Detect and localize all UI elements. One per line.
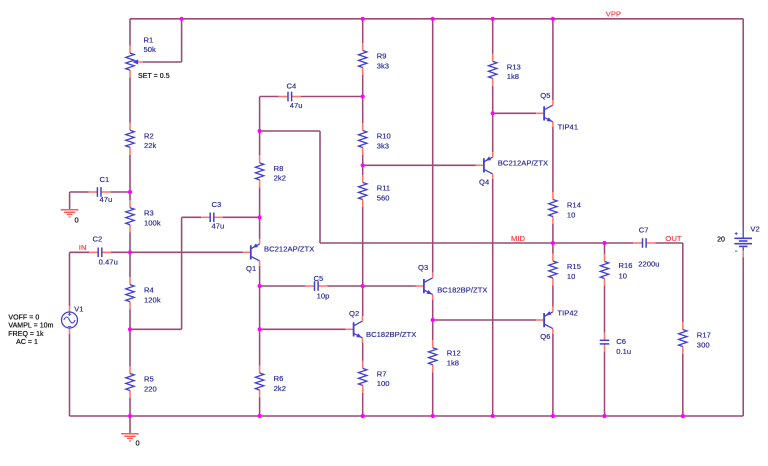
resistor R10 bbox=[359, 123, 391, 155]
svg-text:R9: R9 bbox=[377, 52, 387, 61]
svg-text:V2: V2 bbox=[750, 224, 759, 233]
wire left column seg1 bbox=[129, 19, 131, 46]
resistor R8 bbox=[255, 155, 286, 187]
svg-text:C5: C5 bbox=[314, 274, 324, 283]
wire V1 bottom bbox=[69, 334, 71, 416]
svg-text:IN: IN bbox=[79, 243, 87, 252]
V1 parameters text bbox=[8, 315, 53, 347]
capacitor C3 bbox=[201, 200, 224, 231]
svg-text:560: 560 bbox=[377, 193, 390, 202]
wire C3 row left bbox=[182, 216, 201, 218]
pot R1 SET label bbox=[138, 73, 170, 80]
wire R16 to C6 bbox=[604, 286, 606, 333]
resistor R7 bbox=[359, 361, 390, 393]
wire left column seg6 bbox=[129, 398, 131, 416]
resistor R12 bbox=[429, 340, 461, 372]
svg-text:22k: 22k bbox=[144, 141, 157, 150]
resistor R4 bbox=[126, 277, 161, 309]
wire VPP top rail bbox=[130, 18, 743, 20]
wire R12 top bbox=[432, 320, 434, 340]
wire Q4 emitter up bbox=[492, 113, 494, 152]
svg-text:Q1: Q1 bbox=[246, 264, 256, 273]
wire Q2 base row bbox=[260, 328, 346, 330]
svg-text:120k: 120k bbox=[144, 295, 161, 304]
wire C1 row left bbox=[70, 191, 89, 193]
transistor Q6 (TIP42) bbox=[536, 307, 578, 341]
resistor R11 bbox=[359, 175, 391, 207]
svg-text:R4: R4 bbox=[144, 286, 154, 295]
svg-text:BC182BP/ZTX: BC182BP/ZTX bbox=[437, 286, 487, 295]
wire branch riser to MID bbox=[319, 131, 321, 243]
wire R6 bottom bbox=[259, 398, 261, 417]
svg-text:R7: R7 bbox=[377, 369, 387, 378]
resistor R17 bbox=[679, 322, 711, 354]
svg-text:Q5: Q5 bbox=[540, 91, 550, 100]
svg-text:C6: C6 bbox=[616, 337, 626, 346]
svg-text:2k2: 2k2 bbox=[274, 384, 286, 393]
svg-text:50k: 50k bbox=[144, 45, 157, 54]
wire V2 bottom bbox=[742, 258, 744, 417]
wire Q1 col to Q2 base node bbox=[259, 286, 261, 329]
resistor R13 bbox=[489, 54, 521, 86]
svg-text:V1: V1 bbox=[74, 304, 83, 313]
svg-text:Q3: Q3 bbox=[418, 263, 428, 272]
wire Q1 collector to C5 bbox=[259, 266, 261, 286]
wire R17 bottom bbox=[682, 354, 684, 416]
svg-text:C2: C2 bbox=[93, 235, 103, 244]
resistor R14 bbox=[549, 192, 581, 224]
svg-text:R11: R11 bbox=[377, 184, 391, 193]
wire C1 ground drop bbox=[69, 191, 71, 193]
wire V1 top bbox=[69, 252, 71, 306]
wire Q3 emitter to node bbox=[432, 300, 434, 320]
wire Q4 collector down bbox=[492, 179, 494, 416]
wire IN row mid bbox=[111, 251, 130, 253]
wire C5 row right bbox=[327, 285, 416, 287]
svg-text:47u: 47u bbox=[290, 101, 303, 110]
svg-text:Q2: Q2 bbox=[349, 309, 359, 318]
wire Q5 emitter to R14 bbox=[552, 127, 554, 192]
svg-text:2200u: 2200u bbox=[638, 260, 659, 269]
wire C5 row left bbox=[260, 285, 306, 287]
svg-text:0.47u: 0.47u bbox=[99, 258, 118, 267]
wire left column seg4 bbox=[129, 232, 131, 277]
wire R11 bottom to C5 node bbox=[362, 207, 364, 286]
wire C4 row left bbox=[260, 96, 279, 98]
wire Q2 emitter to R7 bbox=[362, 343, 364, 361]
svg-text:10p: 10p bbox=[317, 292, 330, 301]
svg-text:Q6: Q6 bbox=[540, 332, 550, 341]
wire pot wiper riser bbox=[181, 19, 183, 62]
wire C4 row right bbox=[301, 96, 363, 98]
wire R14 to MID bbox=[552, 224, 554, 243]
wire C3 row right bbox=[223, 216, 260, 218]
wire C4 col corner bbox=[259, 97, 261, 132]
svg-text:0: 0 bbox=[136, 438, 140, 447]
resistor R3 bbox=[126, 200, 161, 232]
svg-text:R10: R10 bbox=[377, 132, 391, 141]
capacitor C2 bbox=[89, 235, 118, 267]
svg-text:BC212AP/ZTX: BC212AP/ZTX bbox=[264, 245, 314, 254]
transistor Q3 (BC182BP/ZTX) bbox=[416, 263, 488, 300]
wire MID row bbox=[320, 242, 633, 244]
resistor R9 bbox=[359, 43, 390, 75]
svg-text:10: 10 bbox=[619, 271, 628, 280]
net label MID bbox=[511, 234, 526, 243]
wire R10 bottom bbox=[362, 155, 364, 165]
svg-text:R14: R14 bbox=[567, 201, 581, 210]
wire R12 bottom bbox=[432, 372, 434, 416]
svg-text:R5: R5 bbox=[144, 375, 154, 384]
wire MID to R15 bbox=[552, 243, 554, 254]
transistor Q4 (BC212AP/ZTX) bbox=[476, 152, 548, 187]
wire R9 bottom bbox=[362, 75, 364, 97]
wire left column seg3 bbox=[129, 155, 131, 200]
transistor Q2 (BC182BP/ZTX) bbox=[346, 309, 417, 343]
wire R16 top bbox=[604, 243, 606, 254]
resistor R16 bbox=[600, 254, 632, 286]
svg-text:1k8: 1k8 bbox=[507, 72, 519, 81]
svg-text:BC182BP/ZTX: BC182BP/ZTX bbox=[366, 330, 416, 339]
svg-text:C7: C7 bbox=[639, 226, 649, 235]
svg-text:Q4: Q4 bbox=[479, 178, 489, 187]
svg-text:R1: R1 bbox=[144, 36, 154, 45]
wire Q2 collector bbox=[362, 286, 364, 316]
wire bottom rail bbox=[70, 415, 744, 417]
wire branch row bbox=[260, 130, 320, 132]
wire R9 top bbox=[362, 19, 364, 43]
svg-text:C4: C4 bbox=[287, 82, 297, 91]
wire C7 to OUT corner bbox=[655, 242, 683, 244]
svg-text:0: 0 bbox=[75, 215, 79, 224]
wire feedback row left bbox=[130, 328, 182, 330]
svg-text:BC212AP/ZTX: BC212AP/ZTX bbox=[498, 159, 548, 168]
svg-text:3k3: 3k3 bbox=[377, 141, 389, 150]
net label VPP bbox=[606, 10, 621, 19]
resistor R1 (POT 50k) bbox=[126, 36, 156, 78]
svg-text:0.1u: 0.1u bbox=[616, 347, 631, 356]
wire R11 top bbox=[362, 165, 364, 175]
svg-text:47u: 47u bbox=[100, 195, 113, 204]
svg-text:10: 10 bbox=[567, 272, 576, 281]
wire OUT drop to R17 bbox=[682, 243, 684, 322]
svg-text:R6: R6 bbox=[274, 374, 284, 383]
svg-text:TIP42: TIP42 bbox=[557, 309, 578, 318]
svg-text:10: 10 bbox=[567, 210, 576, 219]
pot R1 wiper arrow bbox=[133, 59, 143, 64]
ground at C1 bbox=[61, 192, 79, 224]
wire V2 top bbox=[742, 19, 744, 226]
capacitor C4 bbox=[279, 82, 303, 111]
wire C3 riser bbox=[181, 217, 183, 329]
wire IN row left bbox=[70, 251, 90, 253]
wire R13 bottom bbox=[492, 86, 494, 113]
wire R8 top bbox=[259, 131, 261, 155]
wire R10 top bbox=[362, 97, 364, 124]
wire C3 node to Q1 emitter bbox=[259, 217, 261, 239]
wire left column seg2 bbox=[129, 78, 131, 123]
wire R13 top bbox=[492, 19, 494, 54]
voltage source V2 (20V) bbox=[717, 224, 760, 257]
svg-text:R16: R16 bbox=[619, 261, 633, 270]
svg-text:3k3: 3k3 bbox=[377, 61, 389, 70]
wire Q5 base row bbox=[493, 112, 536, 114]
svg-text:20: 20 bbox=[717, 236, 725, 243]
wire R15 to Q6 emitter bbox=[552, 286, 554, 307]
wire left column seg5 bbox=[129, 309, 131, 366]
svg-text:R3: R3 bbox=[144, 209, 154, 218]
svg-text:47u: 47u bbox=[212, 222, 225, 231]
svg-text:R8: R8 bbox=[274, 164, 284, 173]
svg-text:R15: R15 bbox=[567, 262, 581, 271]
wire Q5 collector up bbox=[552, 19, 554, 100]
resistor R6 bbox=[255, 366, 286, 398]
wire pot wiper row bbox=[143, 61, 182, 63]
svg-text:2k2: 2k2 bbox=[274, 174, 286, 183]
svg-text:220: 220 bbox=[144, 384, 157, 393]
wire Q4 base row bbox=[363, 164, 476, 166]
svg-text:R12: R12 bbox=[447, 349, 461, 358]
resistor R5 bbox=[126, 366, 157, 398]
svg-text:300: 300 bbox=[697, 340, 710, 349]
wire R6 top bbox=[259, 329, 261, 365]
svg-text:100k: 100k bbox=[144, 219, 161, 228]
wire C6 bottom bbox=[604, 352, 606, 416]
wire Q3 collector column bbox=[432, 19, 434, 273]
svg-text:MID: MID bbox=[511, 234, 526, 243]
wire R7 bottom bbox=[362, 393, 364, 416]
svg-text:VPP: VPP bbox=[606, 10, 621, 19]
svg-text:FREQ = 1k: FREQ = 1k bbox=[8, 331, 44, 338]
capacitor C5 bbox=[305, 274, 329, 301]
svg-text:C1: C1 bbox=[100, 175, 110, 184]
wire Q6 collector down bbox=[552, 334, 554, 416]
resistor R15 bbox=[549, 254, 581, 286]
svg-text:1k8: 1k8 bbox=[447, 359, 459, 368]
net label IN bbox=[79, 243, 87, 252]
svg-text:R17: R17 bbox=[697, 331, 711, 340]
svg-text:C3: C3 bbox=[212, 200, 222, 209]
resistor R2 bbox=[126, 123, 157, 155]
svg-text:R2: R2 bbox=[144, 131, 154, 140]
net label OUT bbox=[665, 234, 681, 243]
svg-text:R13: R13 bbox=[507, 62, 521, 71]
capacitor C6 bbox=[600, 333, 631, 356]
wire C1 row right bbox=[110, 191, 130, 193]
transistor Q5 (TIP41) bbox=[536, 91, 578, 132]
svg-text:SET = 0.5: SET = 0.5 bbox=[138, 73, 170, 80]
ground at bottom rail bbox=[121, 416, 140, 447]
svg-text:AC = 1: AC = 1 bbox=[16, 339, 38, 346]
svg-text:TIP41: TIP41 bbox=[558, 123, 579, 132]
capacitor C7 bbox=[633, 226, 659, 269]
transistor Q1 (BC212AP/ZTX) bbox=[243, 239, 315, 273]
wire R8 to C3 node bbox=[259, 187, 261, 217]
svg-text:OUT: OUT bbox=[665, 234, 681, 243]
wire IN row to Q1 base bbox=[130, 251, 243, 253]
wire Q6 base row bbox=[433, 319, 537, 321]
capacitor C1 bbox=[88, 175, 112, 204]
svg-text:VOFF = 0: VOFF = 0 bbox=[8, 315, 39, 322]
svg-text:100: 100 bbox=[377, 379, 390, 388]
voltage source V1 (VSIN) bbox=[62, 304, 84, 334]
svg-text:VAMPL = 10m: VAMPL = 10m bbox=[8, 323, 53, 330]
